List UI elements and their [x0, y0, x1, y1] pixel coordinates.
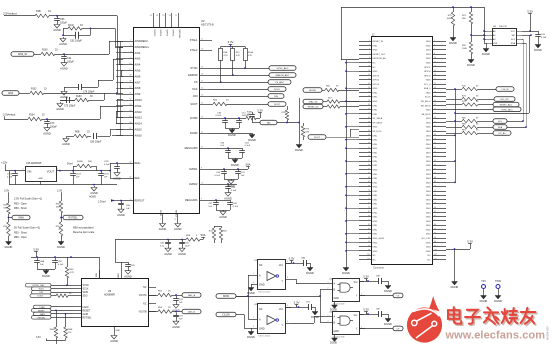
svg-text:9: 9	[369, 57, 370, 59]
svg-text:41: 41	[368, 126, 370, 128]
svg-text:GND: GND	[426, 127, 431, 129]
connector J2 SDP body	[372, 35, 433, 270]
power 5VA flag	[200, 233, 206, 240]
capacitor C103 4.7uF	[7, 171, 18, 179]
svg-text:3.3V: 3.3V	[294, 300, 300, 304]
svg-text:AVDD2: AVDD2	[189, 182, 198, 186]
power 3.3V pullup flag	[228, 40, 234, 47]
wire ain1 filter out	[90, 28, 123, 47]
svg-text:GPIO0: GPIO0	[153, 30, 155, 37]
wire REFOUT	[112, 200, 123, 202]
svg-text:DNU: DNU	[373, 114, 378, 116]
power 3.3V u14	[363, 274, 378, 282]
svg-text:80: 80	[434, 207, 436, 209]
svg-text:AIN0/REF2-: AIN0/REF2-	[135, 39, 149, 43]
svg-text:1: 1	[328, 315, 329, 317]
resistor R52 1K	[158, 291, 172, 297]
svg-text:94: 94	[434, 237, 436, 239]
svg-text:DNU: DNU	[373, 191, 378, 193]
svg-text:82: 82	[434, 211, 436, 213]
svg-text:100pF: 100pF	[60, 21, 67, 24]
op-amp U2 ADC AD7173-8 body	[134, 19, 215, 214]
svg-text:DNU: DNU	[373, 97, 378, 99]
svg-text:AGND: AGND	[117, 213, 125, 217]
wire	[55, 53, 109, 55]
svg-text:C1B: C1B	[217, 113, 222, 115]
wire SDP ground bus	[345, 60, 359, 264]
svg-text:75: 75	[368, 198, 370, 200]
svg-text:3.3V: 3.3V	[57, 190, 62, 193]
svg-text:63: 63	[368, 173, 370, 175]
svg-text:74LVC1G04: 74LVC1G04	[258, 336, 271, 338]
svg-text:39: 39	[368, 121, 370, 123]
svg-text:68: 68	[434, 181, 436, 183]
svg-text:DGND: DGND	[342, 271, 350, 275]
svg-text:100K: 100K	[462, 48, 467, 50]
svg-text:98: 98	[434, 245, 436, 247]
wire VOUTB	[148, 311, 158, 313]
svg-text:DAC_B: DAC_B	[188, 311, 196, 314]
svg-text:28: 28	[434, 96, 436, 98]
wire u14 vcc	[359, 280, 367, 282]
ground DGND tp4	[480, 294, 488, 303]
svg-text:32: 32	[434, 104, 436, 106]
svg-text:DOUT: DOUT	[314, 137, 321, 139]
svg-text:GPIO1: GPIO1	[159, 30, 161, 37]
svg-text:DGND: DGND	[311, 315, 319, 319]
capacitor C43 0.1uF	[225, 184, 237, 192]
ground DGND tp09	[494, 294, 502, 303]
resistor R58 DNI	[56, 201, 63, 213]
svg-text:3.3V: 3.3V	[228, 40, 234, 44]
wire dac cap gnd	[37, 265, 56, 269]
net tag GAIN dac	[34, 312, 74, 316]
ADC U2 top pins GPIO0-GPIO3	[150, 13, 180, 39]
svg-text:AVSS: AVSS	[160, 209, 163, 215]
svg-text:AGND: AGND	[174, 227, 182, 231]
svg-text:AGND: AGND	[224, 196, 232, 200]
ground DGND u12	[306, 266, 314, 275]
svg-text:R6B: R6B	[75, 132, 80, 134]
svg-text:CS_ADC: CS_ADC	[275, 81, 284, 84]
svg-text:74: 74	[434, 194, 436, 196]
svg-text:96: 96	[434, 241, 436, 243]
ground AGND ref	[113, 171, 121, 180]
svg-text:DNU: DNU	[426, 208, 431, 210]
capacitor C2N 0.1uF	[104, 161, 120, 171]
svg-text:0.1uF: 0.1uF	[216, 115, 222, 117]
svg-text:SCLK: SCLK	[274, 89, 280, 91]
svg-text:5VA: 5VA	[200, 233, 205, 237]
resistor R64A 4.7K	[50, 310, 58, 340]
svg-text:GND: GND	[426, 63, 431, 65]
svg-text:2.5Vref: 2.5Vref	[98, 200, 106, 203]
svg-text:CS_EN: CS_EN	[222, 315, 230, 317]
svg-text:52: 52	[434, 147, 436, 149]
resistor R57 33	[327, 98, 359, 104]
regulator U15 ADR4525	[22, 162, 59, 182]
logic gate U13 74LVC1G04 inverter	[251, 304, 291, 338]
svg-text:C8A: C8A	[40, 260, 45, 263]
svg-text:GND: GND	[426, 110, 431, 112]
svg-text:56: 56	[434, 156, 436, 158]
resistor R61 33	[56, 293, 73, 297]
svg-text:10: 10	[434, 57, 436, 59]
svg-text:GND: GND	[426, 217, 431, 219]
svg-text:AGND: AGND	[53, 28, 61, 32]
ground DGND regcapd	[228, 155, 243, 167]
capacitor C36 0.1uF	[160, 240, 171, 248]
resistor R1B 33	[35, 10, 51, 18]
ground AGND	[59, 37, 67, 46]
svg-text:4: 4	[287, 277, 288, 279]
resistor R55 DNI	[3, 203, 10, 214]
svg-text:DNU: DNU	[373, 217, 378, 219]
capacitor C58 1uF	[173, 296, 183, 304]
svg-text:DAC_A: DAC_A	[188, 294, 196, 297]
capacitor C104 1uF	[70, 171, 81, 179]
svg-text:2: 2	[253, 273, 254, 275]
svg-text:R9B: R9B	[224, 52, 229, 54]
wire	[44, 93, 118, 95]
svg-text:0.1uF: 0.1uF	[104, 164, 110, 166]
svg-text:3.3V: 3.3V	[527, 9, 533, 13]
ground AGND vref cap	[124, 269, 132, 278]
svg-text:DNU: DNU	[373, 182, 378, 184]
resistor R9B 4.7K	[219, 49, 229, 61]
svg-text:GPIO5: GPIO5	[424, 75, 431, 77]
svg-text:GND: GND	[373, 221, 378, 223]
svg-text:24: 24	[434, 87, 436, 89]
svg-text:AGND: AGND	[62, 142, 70, 146]
svg-text:RESET_ADC: RESET_ADC	[500, 104, 513, 107]
svg-text:R103: R103	[76, 96, 82, 98]
svg-text:DNU: DNU	[373, 157, 378, 159]
svg-text:4.7K: 4.7K	[248, 55, 253, 57]
svg-text:REFOUT: REFOUT	[135, 200, 145, 203]
ground DGND gain	[5, 236, 13, 249]
svg-text:DNU: DNU	[426, 131, 431, 133]
svg-text:GPIO0: GPIO0	[373, 75, 380, 77]
svg-text:79: 79	[368, 207, 370, 209]
svg-text:DGND: DGND	[384, 289, 392, 293]
svg-text:C104: C104	[76, 174, 82, 176]
capacitor C47 1uF	[208, 200, 219, 208]
svg-text:62: 62	[434, 168, 436, 170]
svg-text:71: 71	[368, 190, 370, 192]
svg-text:33: 33	[368, 108, 370, 110]
ground DGND u12 gnd pin	[247, 284, 255, 295]
op-amp U6 DAC AD5689R body	[82, 279, 149, 327]
wire XTAL2	[209, 50, 212, 52]
svg-text:DNU: DNU	[426, 221, 431, 223]
DAC U6 bottom pin GND	[115, 326, 121, 334]
wire u13 vcc	[285, 306, 297, 308]
svg-text:2: 2	[253, 317, 254, 319]
svg-text:U15 ADR4525: U15 ADR4525	[26, 162, 42, 165]
svg-text:AGND: AGND	[89, 196, 96, 199]
svg-text:SCL_0: SCL_0	[424, 84, 431, 86]
svg-text:GND: GND	[373, 208, 378, 210]
svg-text:AVDD1: AVDD1	[189, 167, 198, 171]
svg-text:AIN9: AIN9	[135, 92, 141, 96]
svg-text:SDA_0: SDA_0	[424, 87, 432, 90]
svg-text:DNU: DNU	[426, 144, 431, 146]
svg-text:20: 20	[434, 79, 436, 81]
net tag MOSI	[216, 294, 236, 299]
svg-text:GND: GND	[426, 92, 431, 94]
wire SCL down	[522, 39, 524, 122]
svg-text:DNU: DNU	[426, 170, 431, 172]
net tag DAC_B	[182, 309, 201, 314]
svg-text:AIN8: AIN8	[135, 86, 141, 90]
svg-text:DGND: DGND	[451, 285, 459, 289]
svg-text:DGND: DGND	[449, 41, 457, 45]
svg-text:3.3V: 3.3V	[36, 337, 41, 339]
svg-text:DNU: DNU	[426, 191, 431, 193]
svg-text:100pF: 100pF	[67, 61, 74, 64]
resistor R58A 33	[327, 105, 359, 108]
wire	[49, 15, 117, 17]
ground DGND r25	[449, 36, 457, 45]
svg-text:19: 19	[368, 79, 370, 81]
svg-text:DGND: DGND	[482, 52, 490, 56]
net tag LDAC	[34, 305, 74, 309]
svg-text:SCL_RD: SCL_RD	[500, 99, 509, 101]
svg-text:3.3V: 3.3V	[363, 274, 369, 278]
svg-text:5: 5	[369, 49, 370, 51]
net label 2.5Vref refout	[98, 199, 113, 203]
svg-text:58: 58	[434, 160, 436, 162]
svg-text:ERROR_ADC: ERROR_ADC	[276, 74, 290, 77]
watermark elecfans chinese text	[448, 307, 535, 324]
svg-text:44: 44	[434, 130, 436, 132]
net tag CS_B	[393, 326, 403, 331]
net tag TA5	[260, 120, 299, 125]
svg-text:16: 16	[434, 70, 436, 72]
svg-text:NC: NC	[373, 67, 377, 69]
svg-text:DNU: DNU	[426, 178, 431, 180]
wire eeprom top	[453, 6, 485, 43]
capacitor C87	[306, 302, 316, 311]
svg-text:R10A: R10A	[248, 51, 254, 54]
svg-text:VDD: VDD	[96, 272, 98, 277]
wire right vertical	[446, 113, 456, 183]
wire WP loop	[529, 35, 531, 113]
wire u15 b	[320, 296, 326, 323]
svg-text:R1(1): R1(1)	[68, 24, 74, 27]
svg-text:DNU: DNU	[373, 135, 378, 137]
svg-text:15: 15	[368, 70, 370, 72]
svg-text:3.3V: 3.3V	[4, 190, 9, 193]
ground AGND	[56, 102, 64, 111]
svg-text:AD5689R: AD5689R	[104, 294, 115, 297]
svg-text:Connector: Connector	[373, 267, 384, 270]
capacitor C80 100pF	[90, 133, 102, 144]
svg-text:77: 77	[368, 203, 370, 205]
svg-text:23: 23	[368, 87, 370, 89]
wire right loop	[454, 89, 529, 114]
net tag SYNC_ADC	[269, 66, 296, 71]
wire cs_en	[236, 315, 251, 329]
svg-text:2: 2	[328, 288, 329, 290]
svg-text:5: 5	[287, 261, 288, 263]
wire mosi	[236, 275, 251, 320]
svg-text:104: 104	[434, 258, 437, 260]
svg-text:85: 85	[368, 220, 370, 222]
svg-text:34: 34	[434, 108, 436, 110]
ground DGND u15 gnd	[330, 337, 338, 345]
DAC U6 top pins	[96, 270, 122, 278]
svg-text:XTAL_SD: XTAL_SD	[309, 101, 318, 104]
wire u12 y to u14	[291, 279, 326, 284]
svg-text:0.1uF: 0.1uF	[233, 206, 239, 208]
resistor R71 row SCL_SD	[446, 95, 515, 101]
resistor R102 33	[30, 89, 47, 95]
net tag DOUT	[227, 102, 286, 107]
svg-text:49: 49	[368, 143, 370, 145]
svg-text:17: 17	[368, 74, 370, 76]
ground DGND dac caps	[42, 269, 50, 278]
svg-text:GND: GND	[373, 101, 378, 103]
net tag DIN	[268, 94, 284, 99]
net tag SYNC_ADC right	[446, 107, 521, 112]
svg-text:AGND: AGND	[172, 325, 180, 329]
svg-text:78: 78	[434, 203, 436, 205]
svg-text:35: 35	[368, 113, 370, 115]
svg-text:DNU: DNU	[373, 152, 378, 154]
svg-text:18: 18	[434, 74, 436, 76]
svg-text:DNI: DNI	[3, 208, 7, 210]
test point TP09	[495, 280, 501, 294]
svg-text:NC: NC	[143, 304, 147, 306]
svg-text:86: 86	[434, 220, 436, 222]
svg-text:12: 12	[434, 61, 436, 63]
power 3.3V dac	[33, 247, 39, 257]
svg-text:C75 100pF: C75 100pF	[64, 106, 76, 108]
svg-text:AIN10: AIN10	[135, 98, 143, 102]
svg-text:NC: NC	[373, 63, 377, 65]
resistor R2B 0	[186, 235, 200, 241]
svg-text:SP_SELB: SP_SELB	[373, 122, 383, 124]
svg-text:GAIN: GAIN	[18, 217, 24, 220]
svg-text:C2N: C2N	[104, 161, 109, 163]
wire	[4, 119, 28, 121]
svg-text:REGCAPA: REGCAPA	[185, 198, 198, 202]
net label 2.5Vrefout row	[3, 113, 16, 120]
capacitor C105 1uF	[98, 171, 109, 179]
svg-text:AGND: AGND	[124, 274, 132, 278]
svg-text:DGND: DGND	[494, 299, 502, 303]
net tag CS_ADC	[268, 80, 291, 85]
svg-text:66: 66	[434, 177, 436, 179]
svg-text:AIN4: AIN4	[135, 63, 141, 67]
capacitor C59 1uF	[173, 313, 183, 321]
wire DIN	[209, 96, 268, 98]
capacitor C41 1uF	[235, 169, 245, 177]
svg-text:SYNC: SYNC	[190, 66, 197, 70]
svg-text:4: 4	[434, 44, 435, 46]
svg-text:R64B: R64B	[68, 329, 73, 331]
wire u14 b	[236, 289, 326, 297]
power 3.3V rstsel	[57, 190, 62, 202]
svg-text:DNU: DNU	[426, 204, 431, 206]
wire eeprom left bus	[484, 32, 486, 44]
ground DGND	[228, 128, 236, 137]
resistor R26 33	[213, 100, 229, 106]
capacitor C60 1uF	[118, 201, 131, 211]
wire DOUT to connector	[326, 137, 359, 139]
svg-text:XTAL1: XTAL1	[190, 38, 198, 42]
svg-text:VOUT: VOUT	[47, 170, 55, 174]
net tag SCLK	[268, 87, 286, 92]
svg-text:DGND: DGND	[5, 245, 13, 249]
svg-text:TP4: TP4	[481, 280, 486, 283]
capacitor C8B	[301, 258, 311, 267]
svg-text:22: 22	[434, 83, 436, 85]
svg-text:DNU: DNU	[373, 178, 378, 180]
wire vertical to AIN row	[116, 16, 118, 94]
svg-text:C62 100pF: C62 100pF	[70, 40, 82, 43]
resistor R25B 100K	[447, 6, 455, 36]
svg-text:0.1uF: 0.1uF	[231, 190, 237, 192]
svg-text:53: 53	[368, 151, 370, 153]
svg-text:GND: GND	[426, 251, 431, 253]
svg-text:R50 - Open: R50 - Open	[14, 236, 28, 239]
svg-text:C80 100pF: C80 100pF	[90, 142, 102, 144]
svg-text:GND: GND	[373, 50, 378, 52]
wire DVDD	[209, 117, 246, 119]
ground AGND c30	[178, 247, 186, 256]
ground DGND u13 gnd pin	[247, 328, 255, 339]
wire u15 vcc	[359, 313, 367, 315]
resistor R53 1K	[158, 307, 172, 313]
wire CS	[209, 82, 268, 84]
svg-text:DOUT: DOUT	[38, 296, 44, 298]
wire to ADC pin	[109, 41, 123, 54]
svg-text:R14B: R14B	[77, 161, 83, 163]
svg-text:R104: R104	[29, 115, 35, 117]
ground DGND c24	[534, 39, 542, 52]
svg-text:3.3V: 3.3V	[363, 307, 369, 311]
wire loop r1a	[62, 28, 91, 37]
ground DGND sdp	[342, 264, 350, 275]
svg-text:DNU: DNU	[426, 41, 431, 43]
svg-text:REGCAPD: REGCAPD	[185, 146, 198, 150]
svg-text:1uF: 1uF	[126, 208, 130, 210]
resistor R6B 33	[74, 132, 90, 138]
wire	[42, 118, 100, 120]
svg-text:DNU: DNU	[426, 182, 431, 184]
svg-text:26: 26	[434, 91, 436, 93]
wire u12 vcc	[285, 262, 292, 264]
svg-text:DNU: DNU	[426, 225, 431, 227]
capacitor C11 0.1uF	[216, 113, 228, 126]
watermark elecfans chinese text shadow	[449, 309, 536, 326]
wire u13 y to u15	[291, 317, 326, 324]
svg-text:GND: GND	[426, 148, 431, 150]
svg-text:0.1uF: 0.1uF	[58, 264, 64, 266]
svg-text:SP_SELA: SP_SELA	[373, 117, 383, 120]
net tag RESET_SD	[303, 104, 327, 109]
svg-text:AIN12: AIN12	[135, 110, 143, 114]
svg-text:100K: 100K	[447, 18, 452, 20]
svg-text:4.7K: 4.7K	[236, 55, 241, 57]
svg-text:DNU: DNU	[373, 105, 378, 107]
svg-text:DGND: DGND	[190, 131, 198, 135]
svg-text:DNU: DNU	[426, 50, 431, 52]
svg-text:VOUTA: VOUTA	[139, 294, 147, 297]
